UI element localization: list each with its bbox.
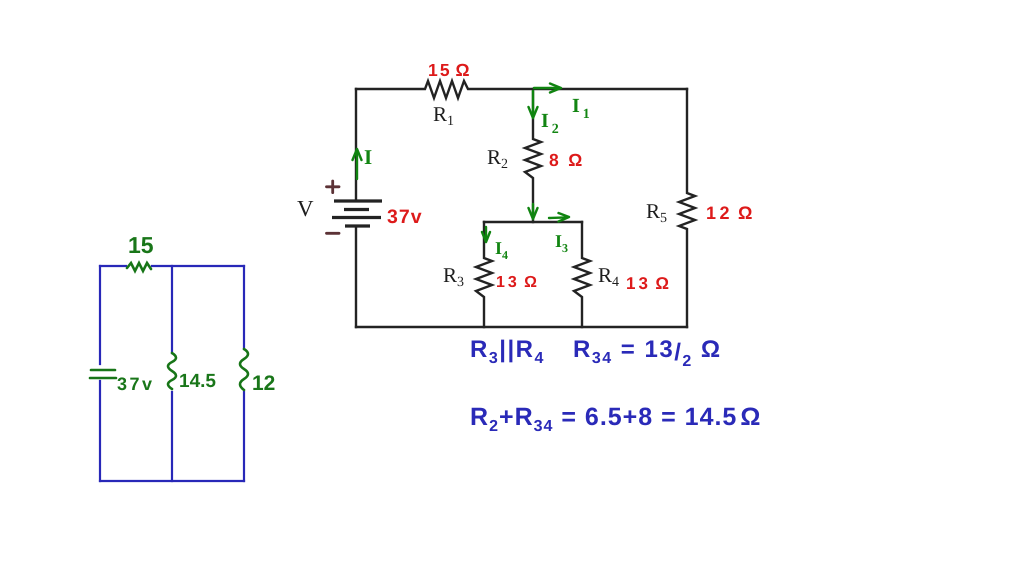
svg-text:I4: I4 bbox=[495, 238, 508, 262]
svg-text:15: 15 bbox=[128, 232, 154, 258]
svg-text:I1: I1 bbox=[572, 95, 590, 122]
svg-text:R2: R2 bbox=[487, 145, 508, 172]
svg-text:R2+R34 = 6.5+8 = 14.5 Ω: R2+R34 = 6.5+8 = 14.5 Ω bbox=[470, 403, 761, 435]
svg-text:R3||R4: R3||R4 bbox=[470, 336, 545, 367]
svg-text:12: 12 bbox=[252, 372, 275, 395]
svg-text:V: V bbox=[297, 196, 314, 221]
svg-text:8 Ω: 8 Ω bbox=[549, 150, 586, 170]
svg-text:R5: R5 bbox=[646, 199, 667, 226]
svg-text:R34 = 13/2 Ω: R34 = 13/2 Ω bbox=[573, 336, 722, 370]
svg-text:15 Ω: 15 Ω bbox=[428, 60, 472, 80]
svg-text:R3: R3 bbox=[443, 263, 464, 290]
svg-text:I: I bbox=[364, 145, 372, 169]
svg-text:13 Ω: 13 Ω bbox=[496, 274, 540, 291]
svg-text:12 Ω: 12 Ω bbox=[706, 203, 756, 223]
svg-text:R1: R1 bbox=[433, 102, 454, 129]
svg-text:I3: I3 bbox=[555, 231, 568, 255]
svg-text:37v: 37v bbox=[117, 374, 155, 394]
svg-text:37v: 37v bbox=[387, 206, 423, 228]
svg-text:I2: I2 bbox=[541, 110, 559, 137]
svg-text:14.5: 14.5 bbox=[179, 371, 216, 392]
svg-text:13 Ω: 13 Ω bbox=[626, 274, 672, 293]
svg-text:R4: R4 bbox=[598, 263, 619, 290]
